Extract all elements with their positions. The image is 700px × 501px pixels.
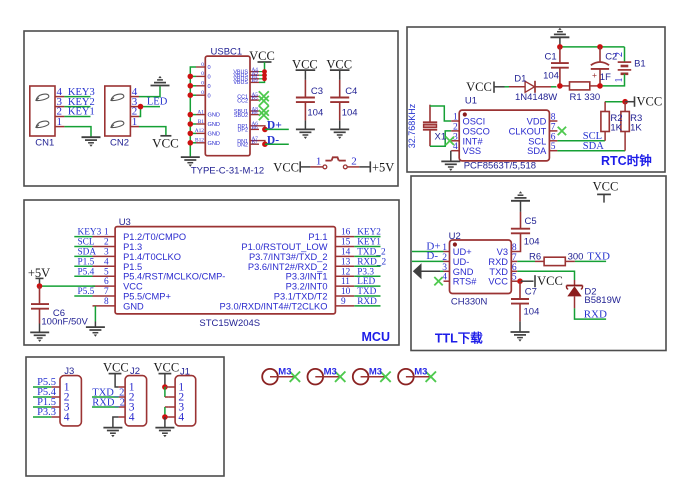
svg-text:M3: M3 <box>369 366 382 377</box>
svg-text:8: 8 <box>512 243 517 253</box>
svg-text:D+: D+ <box>267 120 282 132</box>
svg-text:1N4148W: 1N4148W <box>515 92 557 103</box>
svg-text:1: 1 <box>453 113 458 123</box>
svg-text:1: 1 <box>614 78 625 83</box>
svg-text:P3.3: P3.3 <box>357 267 374 277</box>
svg-text:B5: B5 <box>252 96 258 102</box>
svg-text:CLKOUT: CLKOUT <box>509 126 547 136</box>
svg-text:CN2: CN2 <box>110 138 129 149</box>
svg-text:GND: GND <box>208 132 220 138</box>
svg-text:P5.5/CMP+: P5.5/CMP+ <box>123 292 171 302</box>
svg-text:2: 2 <box>351 155 357 167</box>
svg-text:A12: A12 <box>195 128 205 134</box>
svg-text:STC15W204S: STC15W204S <box>199 318 260 329</box>
svg-text:104: 104 <box>524 236 540 247</box>
svg-text:U1: U1 <box>465 96 477 107</box>
svg-text:+: + <box>592 70 597 80</box>
svg-text:M3: M3 <box>324 366 337 377</box>
svg-text:1K: 1K <box>610 122 622 133</box>
svg-text:1F: 1F <box>600 72 611 83</box>
svg-text:VBUS: VBUS <box>233 80 248 86</box>
svg-text:TTL下载: TTL下载 <box>435 331 483 346</box>
svg-text:P1.1: P1.1 <box>308 232 327 242</box>
svg-text:RXD: RXD <box>584 308 607 320</box>
svg-text:P3.2/INT0: P3.2/INT0 <box>286 282 328 292</box>
svg-text:1: 1 <box>57 116 63 128</box>
svg-text:C1: C1 <box>545 51 557 62</box>
svg-text:6: 6 <box>104 277 109 287</box>
svg-text:P1.2/T0/CMPO: P1.2/T0/CMPO <box>123 232 186 242</box>
svg-text:0: 0 <box>201 62 204 68</box>
svg-text:LED: LED <box>147 96 168 107</box>
svg-text:12: 12 <box>341 267 351 277</box>
svg-text:VCC: VCC <box>326 57 352 71</box>
svg-text:B1: B1 <box>634 59 646 70</box>
svg-text:16: 16 <box>341 228 351 238</box>
svg-text:V3: V3 <box>497 247 508 257</box>
svg-text:GND: GND <box>208 141 220 147</box>
svg-text:TXD: TXD <box>357 287 376 297</box>
svg-text:9: 9 <box>341 297 346 307</box>
svg-text:VCC: VCC <box>273 161 299 175</box>
svg-text:1: 1 <box>316 155 322 167</box>
svg-text:MCU: MCU <box>362 330 390 344</box>
svg-text:4: 4 <box>178 412 184 424</box>
svg-text:RXD: RXD <box>357 297 377 307</box>
svg-text:P3.7/INT3#/TXD_2: P3.7/INT3#/TXD_2 <box>249 252 328 262</box>
svg-text:DP2: DP2 <box>238 128 249 134</box>
svg-text:VCC: VCC <box>537 274 563 288</box>
svg-text:0: 0 <box>201 71 204 77</box>
svg-text:VCC: VCC <box>593 180 619 194</box>
svg-text:32.768KHz: 32.768KHz <box>407 103 417 148</box>
svg-text:GND: GND <box>208 113 220 119</box>
svg-text:11: 11 <box>341 277 350 287</box>
svg-text:UD+: UD+ <box>453 247 472 257</box>
svg-text:14: 14 <box>341 248 351 258</box>
svg-text:VCC: VCC <box>488 277 508 287</box>
svg-text:104: 104 <box>307 108 323 119</box>
svg-text:2: 2 <box>453 122 458 132</box>
svg-text:0: 0 <box>208 84 211 90</box>
svg-text:100nF/50V: 100nF/50V <box>41 317 88 328</box>
svg-text:0: 0 <box>208 75 211 81</box>
svg-text:KEY1: KEY1 <box>357 238 381 248</box>
svg-text:P3.1/TXD/T2: P3.1/TXD/T2 <box>274 292 328 302</box>
svg-text:KEY3: KEY3 <box>78 228 102 238</box>
svg-text:13: 13 <box>341 257 351 267</box>
svg-text:2: 2 <box>614 52 625 57</box>
svg-text:300: 300 <box>568 251 584 262</box>
svg-text:CN1: CN1 <box>35 138 54 149</box>
svg-text:VCC: VCC <box>466 80 492 94</box>
svg-text:R6: R6 <box>529 251 541 262</box>
svg-text:SDA: SDA <box>78 248 97 258</box>
svg-text:P3.3: P3.3 <box>37 407 56 418</box>
svg-text:P1.0/RSTOUT_LOW: P1.0/RSTOUT_LOW <box>241 242 327 252</box>
svg-text:D1: D1 <box>514 74 526 85</box>
svg-text:P3.0/RXD/INT4#/T2CLKO: P3.0/RXD/INT4#/T2CLKO <box>220 301 328 311</box>
svg-text:INT#: INT# <box>463 136 484 146</box>
svg-text:104: 104 <box>543 71 559 82</box>
svg-text:CC2: CC2 <box>237 98 248 104</box>
svg-text:P5.4/RST/MCLKO/CMP-: P5.4/RST/MCLKO/CMP- <box>123 272 225 282</box>
svg-text:0: 0 <box>201 90 204 96</box>
svg-text:P5.4: P5.4 <box>78 267 95 277</box>
svg-text:VCC: VCC <box>637 94 663 108</box>
svg-text:B9: B9 <box>252 78 258 84</box>
svg-text:6: 6 <box>551 132 556 142</box>
svg-text:B6: B6 <box>252 125 258 131</box>
svg-text:+5V: +5V <box>372 161 394 175</box>
svg-text:15: 15 <box>341 238 351 248</box>
svg-text:SCL: SCL <box>528 136 546 146</box>
svg-text:X1: X1 <box>435 132 447 143</box>
svg-text:LED: LED <box>357 277 375 287</box>
svg-text:VSS: VSS <box>463 146 482 156</box>
svg-text:TYPE-C-31-M-12: TYPE-C-31-M-12 <box>191 166 264 177</box>
svg-text:0: 0 <box>208 65 211 71</box>
svg-text:P3.3/INT1: P3.3/INT1 <box>286 272 328 282</box>
svg-text:GND: GND <box>123 301 144 311</box>
svg-text:1: 1 <box>132 116 138 128</box>
svg-text:C3: C3 <box>311 86 323 97</box>
svg-text:SDA: SDA <box>527 146 547 156</box>
svg-text:DN2: DN2 <box>237 142 248 148</box>
svg-text:B8: B8 <box>252 110 258 116</box>
svg-text:C4: C4 <box>345 86 357 97</box>
svg-text:B5819W: B5819W <box>584 295 620 306</box>
svg-text:B7: B7 <box>252 140 258 146</box>
svg-text:SBU2: SBU2 <box>234 113 248 119</box>
svg-text:104: 104 <box>342 108 358 119</box>
svg-text:8: 8 <box>551 113 556 123</box>
svg-text:RXD: RXD <box>488 257 508 267</box>
svg-text:RXD_2: RXD_2 <box>92 397 125 408</box>
svg-text:VCC: VCC <box>152 135 179 150</box>
svg-text:0: 0 <box>201 81 204 87</box>
svg-text:2: 2 <box>104 238 109 248</box>
svg-text:3: 3 <box>104 248 109 258</box>
svg-text:VCC: VCC <box>103 361 129 375</box>
svg-text:B12: B12 <box>195 138 204 144</box>
svg-text:C7: C7 <box>525 287 537 298</box>
svg-text:5: 5 <box>551 142 556 152</box>
svg-text:VCC: VCC <box>123 282 143 292</box>
svg-text:D-: D- <box>267 134 279 146</box>
svg-text:4: 4 <box>64 412 70 424</box>
svg-text:VCC: VCC <box>154 361 180 375</box>
svg-text:M3: M3 <box>414 366 427 377</box>
svg-text:KEY1: KEY1 <box>68 107 95 118</box>
svg-text:P1.4/T0CLKO: P1.4/T0CLKO <box>123 252 181 262</box>
svg-text:0: 0 <box>208 93 211 99</box>
svg-text:RTS#: RTS# <box>453 277 477 287</box>
svg-text:KEY2: KEY2 <box>357 228 381 238</box>
svg-text:P1.3: P1.3 <box>123 242 142 252</box>
svg-text:P1.5: P1.5 <box>123 262 142 272</box>
svg-text:R1 330: R1 330 <box>570 92 601 103</box>
svg-text:CH330N: CH330N <box>451 297 488 308</box>
svg-text:TXD: TXD <box>489 267 508 277</box>
svg-text:RXD_2: RXD_2 <box>357 257 386 267</box>
svg-text:104: 104 <box>524 307 540 318</box>
svg-text:B1: B1 <box>198 119 205 125</box>
svg-text:PCF8563T/5,518: PCF8563T/5,518 <box>464 161 536 172</box>
svg-text:7: 7 <box>551 122 556 132</box>
svg-text:P5.5: P5.5 <box>78 287 95 297</box>
svg-text:P3.6/INT2#/RXD_2: P3.6/INT2#/RXD_2 <box>248 262 328 272</box>
svg-text:1: 1 <box>104 228 109 238</box>
svg-text:10: 10 <box>341 287 351 297</box>
svg-text:5: 5 <box>104 267 109 277</box>
svg-text:A1: A1 <box>197 109 204 115</box>
svg-text:GND: GND <box>208 122 220 128</box>
svg-text:4: 4 <box>129 412 135 424</box>
svg-text:C5: C5 <box>525 216 537 227</box>
svg-text:SCL: SCL <box>78 238 95 248</box>
svg-text:1K: 1K <box>630 122 642 133</box>
svg-text:GND: GND <box>453 267 474 277</box>
svg-text:M3: M3 <box>278 366 291 377</box>
svg-text:OSCO: OSCO <box>463 126 490 136</box>
svg-text:SDA: SDA <box>583 141 604 152</box>
svg-text:UD-: UD- <box>453 257 470 267</box>
svg-text:D-: D- <box>426 250 438 262</box>
svg-text:RTC时钟: RTC时钟 <box>601 153 652 168</box>
svg-text:P1.5: P1.5 <box>78 257 95 267</box>
svg-text:7: 7 <box>104 287 109 297</box>
svg-text:VCC: VCC <box>249 49 275 63</box>
svg-text:TXD: TXD <box>587 250 610 262</box>
svg-text:VDD: VDD <box>527 117 547 127</box>
svg-text:8: 8 <box>104 297 109 307</box>
svg-text:TXD_2: TXD_2 <box>357 248 386 258</box>
svg-text:OSCI: OSCI <box>463 117 486 127</box>
svg-text:VCC: VCC <box>292 57 318 71</box>
svg-text:4: 4 <box>104 257 109 267</box>
